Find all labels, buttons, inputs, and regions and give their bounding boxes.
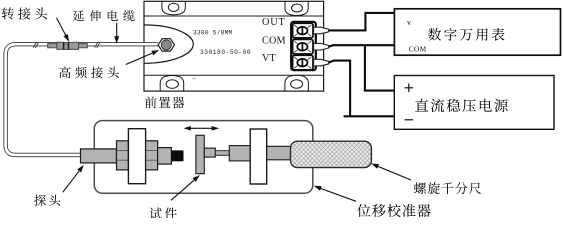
proximitor (preamp) box U1 body <box>144 1 324 91</box>
arrow from 探头 to probe <box>63 166 83 192</box>
adapter joint lines <box>64 42 69 50</box>
adapter connector barrels on cable <box>48 42 88 49</box>
hex connector gray center <box>161 40 171 50</box>
label 试件 (test piece) <box>150 208 162 220</box>
displacement calibrator box <box>94 121 312 194</box>
micrometer knurled thimble <box>291 141 372 167</box>
power supply - label <box>405 119 414 121</box>
small gray dash mark on preamp <box>192 78 196 80</box>
cable break mark right <box>95 42 101 48</box>
multimeter title 数字万用表 <box>428 28 441 41</box>
terminal 2 (COM) <box>293 39 313 54</box>
high-frequency connector hex nut <box>158 39 174 51</box>
arrow from 试件 to test piece <box>171 176 199 200</box>
label 转接头 (adapter) <box>2 7 14 19</box>
mounting tab bottom-left <box>160 76 184 92</box>
test piece stem <box>204 148 215 157</box>
wire lug COM <box>314 43 329 50</box>
movement double arrow <box>185 127 217 130</box>
probe body <box>81 149 117 163</box>
arrow from 位移校准器 to calibrator box <box>315 186 356 201</box>
wire VT to power supply - <box>329 61 394 117</box>
svg-text:COM: COM <box>262 35 286 46</box>
mounting plate right <box>250 129 267 184</box>
terminal 1 (OUT) <box>293 23 313 38</box>
label 探头 (probe) <box>34 195 46 206</box>
preamp top flange strip line <box>144 15 324 17</box>
terminal 3 (VT) <box>293 55 313 70</box>
micrometer thin rod <box>215 151 229 156</box>
terminal block outer housing <box>291 22 316 70</box>
wire junction COM to power supply + <box>365 45 394 90</box>
digital multimeter box <box>394 9 560 55</box>
extension cable (double line) <box>6 44 158 155</box>
probe hex nut right <box>146 141 158 170</box>
svg-text:VT: VT <box>262 53 277 64</box>
connector D-boss arc on preamp left <box>144 25 193 63</box>
mounting plate left <box>128 129 145 184</box>
micrometer sleeve rod <box>267 146 292 160</box>
svg-text:330180-50-00: 330180-50-00 <box>200 49 251 56</box>
wire OUT to multimeter V <box>329 13 395 31</box>
probe hex nut left <box>117 141 129 170</box>
label 前置器 (preamp) <box>145 97 157 109</box>
mounting tab top-left <box>162 1 185 14</box>
arrow from 高频接头 to hex connector <box>126 51 158 65</box>
label 延伸电缆 (extension cable) <box>73 10 84 21</box>
arrow from 螺旋千分尺 to thimble <box>373 164 411 180</box>
wire COM to multimeter COM <box>329 45 395 47</box>
power supply title 直流稳压电源 <box>415 99 428 112</box>
svg-text:COM: COM <box>409 45 427 54</box>
arrow from 延伸电缆 to cable <box>115 23 118 42</box>
mounting tab bottom-right <box>285 75 309 91</box>
svg-text:OUT: OUT <box>262 17 286 28</box>
label 螺旋千分尺 (micrometer) <box>414 182 426 194</box>
mounting tab top-right <box>285 1 308 15</box>
label 位移校准器 (displacement calibrator) <box>357 204 370 217</box>
probe tip holder <box>158 148 172 165</box>
power supply + label <box>405 84 414 93</box>
arrow from 转接头 to adapter <box>57 18 69 40</box>
micrometer spindle <box>229 146 250 161</box>
test piece target plate <box>196 135 204 173</box>
wire lug OUT <box>314 27 329 34</box>
cable break mark left <box>33 42 39 48</box>
preamp bottom flange strip line <box>144 74 324 76</box>
wire lug VT <box>314 59 329 66</box>
DC power supply box <box>394 76 554 130</box>
probe tip (black) <box>171 150 183 161</box>
svg-text:3300 5/8MM: 3300 5/8MM <box>193 29 233 36</box>
label 高频接头 (HF connector) <box>59 67 70 79</box>
